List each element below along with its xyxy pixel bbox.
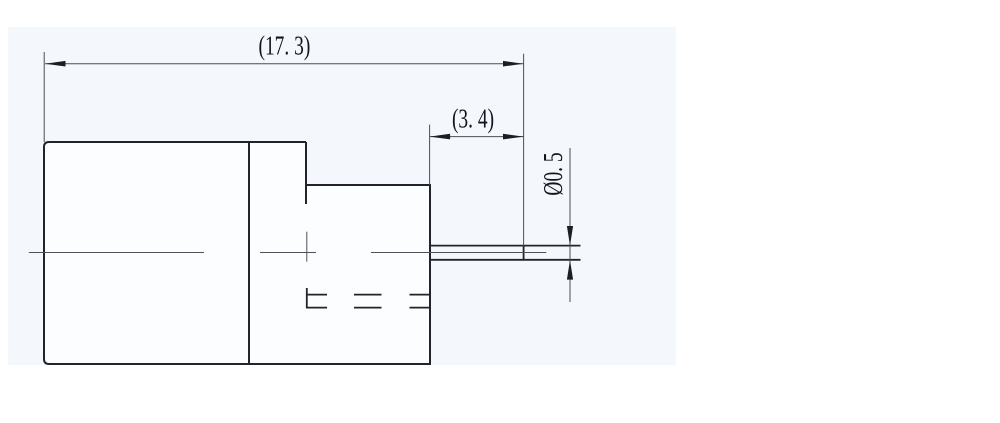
vertical centerline dash [306, 232, 308, 262]
shaft end face [523, 246, 525, 260]
dimension line 3.4 [430, 136, 524, 138]
arrow right 17.3 [503, 61, 524, 67]
svg-text:Ø0. 5: Ø0. 5 [539, 152, 569, 195]
hidden gear top line (dashed) [307, 294, 430, 296]
extension line right (shared 17.3 / 3.4) [523, 54, 525, 246]
dimension line dia 0.5 [569, 148, 571, 302]
svg-text:(17. 3): (17. 3) [258, 32, 310, 62]
shaft top edge + extension [430, 245, 581, 247]
hidden gear bottom line (dashed) [307, 307, 430, 309]
arrow left 17.3 [45, 61, 66, 67]
motor end-cap divider [248, 142, 250, 364]
arrow up dia 0.5 [567, 260, 573, 280]
arrow down dia 0.5 [567, 226, 573, 246]
svg-text:(3. 4): (3. 4) [452, 105, 494, 135]
horizontal centerline segment A [29, 252, 204, 254]
hidden gear left edge dash [306, 288, 308, 308]
horizontal centerline segment C [371, 252, 546, 254]
arrow left 3.4 [430, 134, 451, 140]
shaft bottom edge + extension [430, 259, 581, 261]
extension line left (3.4) [429, 125, 431, 185]
motor front housing edge (step overhang) [305, 142, 307, 204]
extension line left (17.3) [43, 52, 45, 142]
dimension line 17.3 [45, 63, 524, 65]
arrow right 3.4 [503, 134, 524, 140]
drawing sheet panel [8, 27, 676, 365]
horizontal centerline segment B [260, 252, 316, 254]
motor body fill [44, 142, 430, 364]
motor body outline [44, 142, 430, 364]
